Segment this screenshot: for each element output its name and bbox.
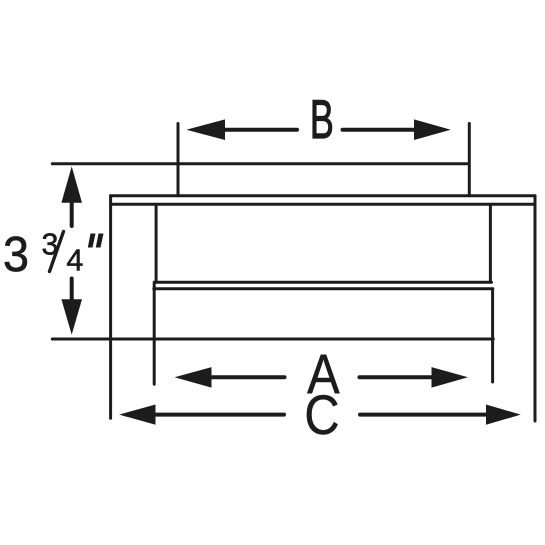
wire body upper right edge (489, 205, 492, 283)
wire seam band lower line (154, 287, 493, 290)
node A left arrowhead (175, 367, 212, 388)
node up arrowhead (3 3/4 dimension) (61, 166, 82, 202)
node B left arrowhead (186, 119, 225, 140)
node down arrowhead (3 3/4 dimension) (61, 299, 82, 335)
wire right flange edge / C right extension line (534, 196, 537, 421)
wire vertical dimension shaft lower (70, 279, 74, 300)
wire bottom reference line (3 3/4 lower datum / body bottom) (52, 338, 493, 341)
svg-text:3: 3 (3, 228, 29, 282)
wire body upper left edge (155, 205, 158, 283)
wire body lower right edge / A right extension line (491, 289, 494, 382)
wire seam band upper line (155, 281, 492, 284)
wire B right extension line (468, 124, 471, 196)
wire vertical dimension shaft upper (70, 203, 74, 227)
wire flange top edge (111, 194, 535, 197)
wire left flange edge / C left extension line (109, 196, 112, 419)
wire A dimension right shaft (360, 375, 433, 379)
wire B left extension line (177, 124, 180, 196)
svg-text:C: C (304, 385, 339, 447)
node B right arrowhead (414, 119, 451, 140)
node inch mark left stroke (88, 234, 96, 248)
node A right arrowhead (432, 367, 469, 388)
node inch mark right stroke (96, 234, 104, 248)
node C right arrowhead (486, 405, 521, 425)
wire fraction slash (50, 232, 64, 272)
wire flange bottom edge (111, 203, 535, 206)
wire C dimension left shaft (156, 413, 284, 417)
wire top reference line (3 3/4 upper datum) (52, 162, 467, 165)
svg-text:B: B (310, 89, 334, 150)
wire B dimension right shaft (343, 128, 415, 132)
wire B dimension left shaft (225, 128, 298, 132)
svg-text:4: 4 (66, 243, 83, 277)
node C left arrowhead (119, 405, 155, 425)
wire C dimension right shaft (360, 413, 486, 417)
wire A dimension left shaft (212, 375, 285, 379)
wire body lower left edge / A left extension line (153, 282, 156, 384)
